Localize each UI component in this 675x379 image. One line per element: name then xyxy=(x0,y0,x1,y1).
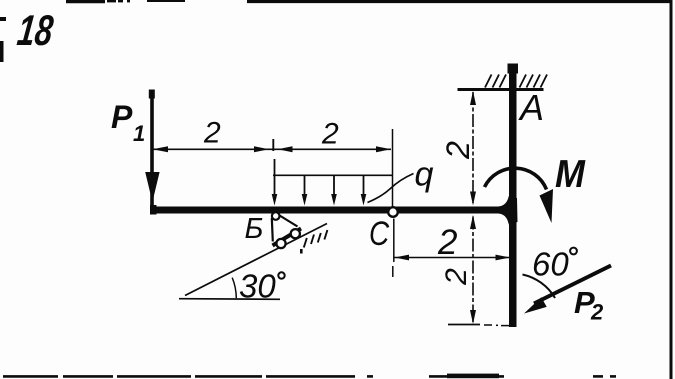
vertical dimension line (lower 2) xyxy=(472,217,474,323)
bottom dimension tick xyxy=(448,325,509,326)
svg-text:2: 2 xyxy=(203,117,221,150)
60 degree angle arc xyxy=(523,275,556,299)
force P1 arrow xyxy=(145,90,159,207)
figure number 18 xyxy=(15,7,56,55)
svg-text:1: 1 xyxy=(133,121,145,146)
svg-text:18: 18 xyxy=(15,7,56,55)
svg-text:2: 2 xyxy=(440,268,473,286)
svg-text:A: A xyxy=(518,87,544,128)
load q label xyxy=(415,156,434,194)
left margin marks xyxy=(0,17,6,62)
svg-text:60: 60 xyxy=(532,246,569,283)
top dimension arrowheads xyxy=(153,146,392,152)
svg-text:2: 2 xyxy=(590,300,604,325)
angle label 30deg xyxy=(239,268,285,305)
top dimension line (2 + 2) xyxy=(153,139,392,151)
incline baseline xyxy=(179,298,280,301)
30 degree angle arc xyxy=(232,278,236,299)
beam-column junction fillet xyxy=(498,196,518,225)
B support bracket xyxy=(272,215,301,246)
svg-text:2: 2 xyxy=(437,223,457,262)
page top border xyxy=(66,0,672,3)
distributed load arrow 4 xyxy=(361,176,367,206)
svg-text:2: 2 xyxy=(321,118,339,151)
node C label xyxy=(369,214,390,252)
moment M label xyxy=(555,152,586,196)
svg-text:Б: Б xyxy=(245,213,264,245)
horizontal dimension line (2, C to column) xyxy=(395,257,511,259)
node B label xyxy=(245,213,264,245)
svg-text:2: 2 xyxy=(440,141,476,160)
dimension label 2 (horizontal) xyxy=(437,223,457,262)
extension line below C xyxy=(393,219,394,278)
incline hatching xyxy=(304,230,328,248)
distributed load q top line xyxy=(273,174,393,176)
distributed load left boundary + arrow xyxy=(272,159,278,206)
vertical dimension arrowheads xyxy=(470,91,476,324)
rotated dimension label 2 (lower) xyxy=(440,268,473,286)
distributed load arrow 3 xyxy=(331,176,337,206)
node C circle xyxy=(388,207,398,217)
page bottom border xyxy=(3,374,616,379)
column (vertical bar) xyxy=(508,64,519,328)
fixed support ground line at A xyxy=(458,88,544,91)
rotated dimension label 2 (upper) xyxy=(440,141,476,160)
svg-text:M: M xyxy=(555,152,586,196)
hinge circle at B support xyxy=(272,212,280,220)
distributed load arrow 2 xyxy=(302,176,308,206)
dimension label 2 (right span) xyxy=(321,118,339,151)
page right border xyxy=(670,0,673,379)
svg-text:q: q xyxy=(415,156,434,194)
moment M arc arrow xyxy=(485,168,554,223)
force P2 arrow xyxy=(524,266,611,314)
svg-text:C: C xyxy=(369,214,390,252)
extension line above C xyxy=(392,129,394,207)
B support rollers xyxy=(276,229,300,248)
force P2 label xyxy=(574,285,604,325)
dimension label 2 (left span) xyxy=(203,117,221,150)
svg-text:P: P xyxy=(111,99,133,135)
inclined surface line xyxy=(185,224,327,296)
node A label xyxy=(518,87,544,128)
svg-text:30: 30 xyxy=(239,268,276,305)
beam (horizontal bar) xyxy=(150,205,512,215)
horizontal dimension arrowheads xyxy=(395,255,511,261)
ground hatching at A xyxy=(485,75,547,88)
q leader line xyxy=(368,174,414,203)
vertical dimension line (upper 2) xyxy=(472,92,474,203)
incline hatch dot xyxy=(300,249,303,254)
angle label 60deg xyxy=(532,246,577,283)
force P1 label xyxy=(111,99,145,146)
